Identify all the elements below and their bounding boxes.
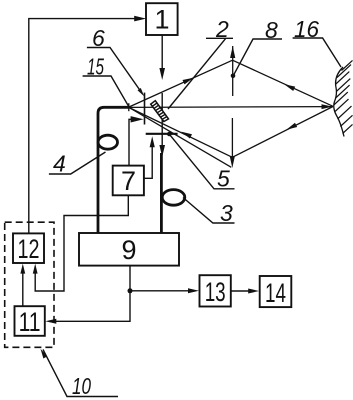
- svg-text:10: 10: [72, 373, 91, 399]
- node junction: [128, 288, 133, 293]
- fiber loop 4: [98, 135, 117, 149]
- svg-text:7: 7: [121, 166, 136, 196]
- lens 8: [230, 46, 236, 168]
- label 15: [83, 54, 129, 107]
- label 10: [41, 349, 119, 399]
- svg-text:3: 3: [220, 200, 233, 226]
- label 3: [183, 198, 235, 227]
- ray fiber tip to lens top: [129, 60, 233, 107]
- svg-text:5: 5: [217, 166, 230, 192]
- box 9: [79, 233, 179, 266]
- ray fiber tip to lens bottom tip: [129, 108, 231, 168]
- dashed box 10: [5, 222, 54, 347]
- svg-text:13: 13: [205, 277, 226, 307]
- label 16: [293, 16, 341, 67]
- optical axis ray to surface 16: [129, 106, 332, 109]
- label 5: [167, 132, 235, 192]
- svg-text:1: 1: [154, 5, 169, 35]
- box 12: [13, 233, 44, 264]
- beam splitter 2: [151, 101, 169, 122]
- svg-text:4: 4: [53, 151, 66, 177]
- label 8: [231, 17, 282, 78]
- box 11: [15, 306, 45, 337]
- wire node to box 11: [54, 291, 130, 322]
- wire node to box 13: [130, 290, 190, 292]
- wire box 13 to box 14: [231, 290, 250, 292]
- fiber tip node: [128, 103, 130, 111]
- mirror 5 plate: [146, 133, 178, 135]
- rough surface 16: [334, 60, 353, 136]
- wire from box 11 to box 12: [22, 268, 24, 306]
- label 2: [168, 16, 233, 109]
- wire from box 7 right to mirror 5: [144, 141, 152, 178]
- wire beam below arrow through splitter and mirror 5: [161, 93, 163, 146]
- ray fiber tip to lens bottom: [129, 108, 232, 158]
- fiber loop 3: [162, 190, 185, 206]
- ray lens top to surface: [233, 60, 334, 106]
- fiber from tip to loop 4 and box 9: [98, 107, 129, 233]
- wire from box 9 bottom to node: [129, 266, 131, 291]
- modulator 6 plate: [144, 93, 146, 125]
- svg-text:12: 12: [18, 234, 40, 264]
- wire beam from box 1 down: [161, 35, 163, 69]
- box 14: [260, 276, 292, 308]
- fiber from splitter down to box 9: [160, 153, 163, 233]
- box 7: [113, 166, 144, 197]
- svg-text:14: 14: [265, 278, 286, 308]
- wire from box 7 bottom to box 12: [35, 195, 128, 291]
- label 6: [87, 25, 144, 97]
- wire from box 7 top to modulator 6: [129, 119, 132, 165]
- wire from top-left to box 1: [29, 19, 135, 234]
- svg-text:11: 11: [19, 307, 41, 337]
- box 13: [200, 275, 231, 307]
- box 1 laser: [146, 3, 178, 35]
- svg-text:9: 9: [121, 235, 136, 265]
- label 4: [49, 151, 106, 177]
- ray surface to lens bottom: [232, 107, 333, 158]
